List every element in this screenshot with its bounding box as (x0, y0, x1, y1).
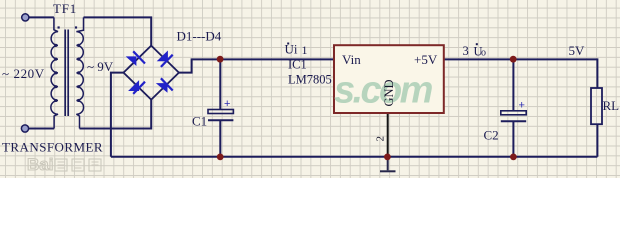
wire regulator output to RL top (444, 59, 598, 88)
svg-text:Vin: Vin (342, 52, 361, 67)
svg-text:TRANSFORMER: TRANSFORMER (2, 140, 103, 155)
wire secondary bottom to bridge bottom vertex (80, 100, 152, 129)
svg-text:+: + (224, 98, 230, 110)
wire bottom AC terminal to primary bottom (28, 128, 54, 130)
wire ground bus (111, 156, 598, 158)
svg-text:+5V: +5V (414, 52, 438, 67)
svg-text:2: 2 (375, 136, 387, 142)
resistor RL (591, 88, 602, 124)
svg-text:D1---D4: D1---D4 (177, 29, 222, 44)
regulator IC1 LM7805 box (334, 45, 444, 113)
wire GND pin of regulator down to bus (387, 113, 389, 157)
diode D4 bottom-right (156, 78, 173, 93)
svg-text:IC1: IC1 (288, 58, 307, 72)
wire C1 vertical (219, 59, 221, 156)
ground (380, 157, 396, 172)
svg-text:o: o (481, 48, 486, 59)
junction dot C1 bottom (217, 154, 224, 161)
svg-text:GND: GND (382, 79, 396, 106)
terminal node bottom-left (21, 125, 28, 132)
svg-text:Bai: Bai (27, 155, 53, 174)
svg-text:RL: RL (603, 98, 620, 113)
wire top AC terminal to primary (28, 16, 54, 18)
svg-text:LM7805: LM7805 (288, 72, 332, 86)
svg-text:TF1: TF1 (53, 1, 77, 16)
svg-text:~ 220V: ~ 220V (2, 66, 45, 81)
junction dot C2 top (510, 56, 517, 63)
svg-text:1: 1 (302, 43, 308, 57)
svg-text:5V: 5V (569, 43, 586, 58)
terminal node top-left (22, 14, 29, 21)
junction dot C1 top (217, 56, 224, 63)
diode D1 top-left (126, 51, 145, 66)
transformer TF1 (51, 17, 84, 128)
junction dot GND on bus (384, 154, 391, 161)
wire RL bottom to bus (596, 124, 598, 157)
capacitor C1 (208, 98, 233, 120)
bridge diamond wires (124, 46, 179, 100)
svg-text:Ui: Ui (285, 42, 298, 57)
watermark Baidu Baike bottom-left (27, 155, 101, 174)
wire secondary top to bridge top vertex (84, 17, 152, 45)
diode D2 top-right (157, 51, 173, 67)
wire bridge left vertex to ground bus (111, 73, 124, 157)
capacitor C2 (501, 99, 526, 121)
junction dot C2 bottom (510, 154, 517, 161)
svg-text:C2: C2 (484, 128, 499, 143)
wire C2 vertical (512, 59, 514, 156)
svg-text:+: + (519, 99, 525, 111)
svg-text:C1: C1 (192, 114, 207, 129)
diode D3 bottom-left (128, 80, 145, 94)
svg-text:3: 3 (463, 44, 469, 58)
wire bridge right vertex to Vin (179, 59, 334, 72)
svg-text:~ 9V: ~ 9V (87, 59, 114, 74)
